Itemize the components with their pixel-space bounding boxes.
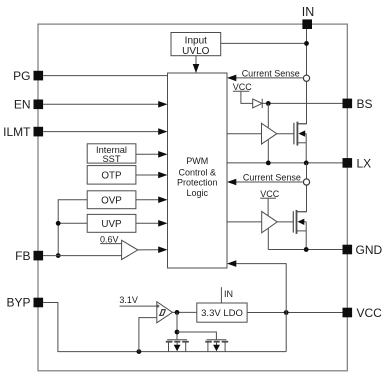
wire low driver return to GND rail	[267, 229, 269, 250]
wire BYP pin to bypass rail	[43, 303, 286, 352]
node driver/LX junction	[266, 161, 271, 166]
wire SST to PWM (arrow)	[136, 151, 168, 158]
node comparator output junction	[175, 310, 180, 315]
transistor Q1 high-side NMOS	[294, 122, 307, 163]
wire driver return to LX rail	[267, 140, 269, 163]
node FET source/LX junction	[304, 161, 309, 166]
node current sense tap low (open circle)	[303, 179, 309, 185]
wire comparator out to LDO	[172, 311, 196, 313]
wire bootstrap to driver supply	[267, 103, 269, 127]
wire LDO output to VCC pin	[247, 312, 342, 314]
svg-text:VCC: VCC	[357, 306, 383, 320]
IC boundary box	[38, 24, 347, 371]
wire diode to BS pin	[262, 102, 342, 104]
svg-text:Protection: Protection	[177, 178, 218, 188]
label Current Sense (low side)	[243, 173, 301, 183]
pin ILMT	[3, 125, 43, 139]
wire IN line down to high-side FET drain	[298, 29, 307, 124]
pin IN	[302, 5, 315, 29]
svg-text:SST: SST	[102, 154, 120, 164]
node FB/UVP junction	[56, 221, 61, 226]
svg-text:FB: FB	[15, 249, 30, 263]
wire VCC stub to low driver	[260, 198, 276, 215]
pin BYP	[6, 296, 43, 310]
label VCC low driver	[260, 189, 280, 199]
wire VCC feedback to PWM (arrow)	[227, 260, 286, 351]
wire PWM to high-side driver	[227, 133, 262, 135]
wire OVP to PWM (arrow)	[136, 196, 168, 203]
wire FB to comparator	[43, 255, 122, 257]
block Internal SST	[87, 144, 136, 164]
svg-text:UVP: UVP	[101, 219, 122, 230]
svg-text:Logic: Logic	[187, 188, 209, 198]
pin BS	[343, 97, 373, 111]
svg-text:ILMT: ILMT	[3, 125, 31, 139]
svg-text:Current Sense: Current Sense	[242, 69, 300, 79]
wire OTP to PWM (arrow)	[136, 172, 168, 179]
op-amp FB comparator	[122, 240, 138, 259]
svg-text:BS: BS	[357, 97, 373, 111]
block U1 PWM Control & Protection Logic	[168, 73, 228, 268]
svg-text:OTP: OTP	[101, 171, 122, 182]
svg-text:PG: PG	[13, 69, 30, 83]
svg-text:BYP: BYP	[6, 296, 30, 310]
op-amp high-side gate driver	[262, 123, 277, 144]
wire 0.6V ref stub	[100, 243, 121, 245]
wire FB sense branch to OVP/UVP	[58, 200, 87, 256]
block OVP	[87, 191, 136, 209]
node low FET source/GND junction	[304, 247, 309, 252]
transistor Q3 bypass FET left	[166, 340, 189, 352]
wire low driver to gate	[277, 221, 293, 223]
node current sense tap (open circle)	[303, 75, 309, 81]
pin FB	[15, 249, 43, 263]
block OTP	[87, 166, 136, 185]
node FB junction	[56, 253, 61, 258]
svg-text:IN: IN	[224, 289, 233, 299]
svg-text:0.6V: 0.6V	[100, 234, 119, 244]
node IN/UVLO junction	[304, 41, 309, 46]
pin LX	[343, 156, 372, 170]
wire GND rail	[268, 249, 342, 251]
wire 3.1V ref stub	[120, 305, 157, 307]
wire EN to PWM (arrow)	[43, 101, 167, 108]
block UVP	[87, 214, 136, 232]
label 3.1V	[119, 295, 138, 305]
label 0.6V	[100, 234, 119, 244]
wire LDO IN stub	[220, 287, 222, 303]
block U2 Input UVLO	[171, 33, 221, 57]
wire BYP sense to comparator input	[139, 318, 157, 352]
label Current Sense (high side)	[242, 69, 300, 79]
wire gate branch to right bypass FET	[177, 332, 216, 340]
svg-text:LX: LX	[357, 156, 372, 170]
node VCC junction	[284, 310, 289, 315]
wire ILMT to PWM (arrow)	[43, 128, 167, 135]
wire driver to gate	[277, 133, 294, 135]
transistor Q2 low-side NMOS	[293, 210, 306, 250]
svg-text:VCC: VCC	[260, 189, 280, 199]
wire current sense low side (arrow into PWM)	[227, 179, 303, 186]
label VCC bootstrap	[233, 82, 253, 92]
wire comparator out to PWM (arrow)	[138, 246, 168, 253]
svg-text:UVLO: UVLO	[182, 46, 209, 57]
svg-text:GND: GND	[356, 243, 383, 257]
node bootstrap junction	[266, 101, 271, 106]
node BYP sense tap	[137, 349, 142, 354]
wire UVLO output to IN line	[221, 42, 307, 44]
svg-text:EN: EN	[14, 98, 31, 112]
label IN (LDO supply)	[224, 289, 233, 299]
svg-text:VCC: VCC	[233, 82, 253, 92]
svg-text:PWM: PWM	[186, 156, 208, 166]
svg-text:3.3V LDO: 3.3V LDO	[201, 308, 243, 319]
block U4 3.3V LDO	[197, 303, 247, 322]
svg-text:IN: IN	[302, 5, 315, 19]
wire current sense high side (arrow into PWM)	[227, 75, 303, 82]
pin EN	[14, 98, 43, 112]
wire arrow UVLO to PWM	[193, 56, 200, 73]
wire gate feed down	[176, 312, 178, 339]
diode D1 bootstrap	[253, 99, 263, 108]
transistor Q4 bypass FET right	[205, 340, 228, 352]
svg-text:3.1V: 3.1V	[119, 295, 138, 305]
node gate branch junction	[175, 330, 180, 335]
wire UVP to PWM (arrow)	[136, 220, 168, 227]
op-amp low-side gate driver	[262, 211, 278, 232]
pin GND	[343, 243, 383, 257]
wire PWM to low-side driver	[227, 221, 262, 223]
wire LX down to low-side FET drain	[296, 163, 307, 212]
pin VCC	[343, 306, 383, 320]
pin PG	[13, 69, 43, 83]
op-amp U3 schmitt comparator	[157, 302, 173, 323]
wire PG to PWM	[43, 75, 167, 77]
wire VCC stub to diode	[233, 91, 253, 103]
svg-text:Control &: Control &	[179, 167, 217, 177]
svg-text:Current Sense: Current Sense	[243, 173, 301, 183]
wire LX rail	[227, 162, 343, 164]
svg-text:OVP: OVP	[101, 196, 122, 207]
